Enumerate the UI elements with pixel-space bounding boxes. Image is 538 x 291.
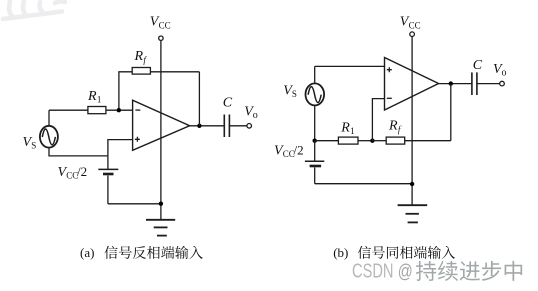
capacitor C (b) (472, 72, 477, 95)
caption (a) (80, 245, 203, 260)
wire: cap to Vo (a) (229, 125, 246, 127)
node: ground junction (b) (410, 182, 414, 186)
wire: noninverting input (b) (315, 65, 385, 67)
op-amp U1 (a) (133, 100, 190, 150)
svg-text:1: 1 (97, 94, 102, 104)
wire: row to R1 (b) (315, 140, 339, 142)
label R1 (a) (87, 89, 101, 105)
resistor Rf (a) (132, 68, 150, 75)
svg-text:/2: /2 (77, 164, 87, 179)
op-amp U2 (b) (385, 58, 439, 111)
svg-text:@: @ (398, 261, 413, 282)
resistor R1 (b) (338, 137, 358, 144)
resistor Rf (b) (386, 137, 405, 144)
svg-text:o: o (253, 110, 258, 121)
wire: Vs bottom (a) (49, 148, 108, 156)
svg-text:CC: CC (159, 20, 171, 30)
svg-text:R: R (340, 121, 350, 136)
wire: Vs bottom (b) (314, 105, 316, 140)
terminal Vo (a) (247, 124, 252, 129)
wire: Vs top (b) (314, 66, 316, 83)
ground (b) (398, 205, 428, 222)
svg-text:/2: /2 (294, 142, 304, 157)
wire: output (a) (190, 125, 225, 127)
wire: Vcc vertical rail (a) (160, 41, 162, 220)
svg-text:1: 1 (350, 126, 355, 136)
Vcc terminal (b) (410, 32, 415, 37)
svg-text:S: S (31, 140, 36, 150)
svg-text:C: C (223, 96, 233, 111)
svg-text:R: R (388, 119, 398, 134)
wire: bottom return (b) (315, 183, 412, 185)
watermark CSDN (352, 260, 522, 282)
wire: node to Rf (b) (372, 140, 386, 142)
wire: cap to Vo (b) (477, 83, 500, 85)
label Vo (a) (244, 105, 257, 122)
caption (b) (333, 245, 455, 260)
wire: Vcc vertical rail (b) (411, 37, 413, 205)
Vcc terminal (a) (159, 36, 163, 40)
node: output junction (a) (197, 124, 201, 128)
resistor R1 (a) (88, 107, 106, 114)
svg-text:S: S (292, 89, 297, 99)
wire: Rf to feedback corner (b) (405, 140, 451, 142)
label Rf (b) (388, 119, 402, 135)
node: Vs / battery junction (b) (313, 139, 317, 143)
svg-text:CSDN: CSDN (352, 260, 394, 282)
label Vcc (b) (400, 15, 421, 31)
label Vcc/2 (b) (274, 142, 304, 159)
ghost watermark fragment (top-left) (3, 0, 65, 19)
wire: R1 to inverting input (a) (106, 109, 133, 111)
label Vo (b) (493, 62, 507, 79)
wire: input to R1 (a) (49, 109, 88, 111)
svg-text:C: C (473, 58, 483, 73)
ground (a) (146, 220, 175, 236)
source Vs (b) (306, 83, 325, 105)
svg-text:o: o (502, 68, 507, 79)
wire: output (b) (439, 83, 472, 85)
node: output junction (b) (449, 81, 453, 85)
wire: feedback top (a) (119, 72, 199, 110)
wire: inverting input branch (b) (372, 99, 384, 141)
battery Vcc/2 (a) (98, 156, 118, 204)
terminal Vo (b) (500, 81, 505, 86)
svg-text:(b): (b) (333, 245, 348, 260)
label Rf (a) (134, 49, 148, 65)
node: inverting input junction (a) (117, 108, 121, 112)
svg-text:R: R (87, 89, 97, 104)
wire: Vs top (a) (48, 110, 50, 126)
label Vs (a) (23, 135, 37, 151)
wire: feedback right vertical (a) (198, 72, 200, 126)
svg-text:CC: CC (409, 20, 421, 30)
node: inverting junction (b) (370, 139, 374, 143)
wire: R1 to node (b) (358, 140, 372, 142)
capacitor C (a) (224, 115, 229, 138)
wire: bottom return (a) (108, 203, 161, 205)
label Vcc/2 (a) (58, 164, 88, 181)
svg-text:R: R (134, 49, 144, 64)
label R1 (b) (340, 121, 354, 137)
battery Vcc/2 (b) (305, 141, 324, 184)
label Vcc (a) (150, 15, 171, 31)
wire: noninverting branch (a) (108, 140, 133, 156)
node: ground junction (a) (159, 202, 163, 206)
source Vs (a) (40, 126, 58, 148)
wire: feedback vertical (b) (450, 84, 452, 141)
svg-text:(a): (a) (80, 245, 94, 260)
label Vs (b) (283, 83, 297, 99)
